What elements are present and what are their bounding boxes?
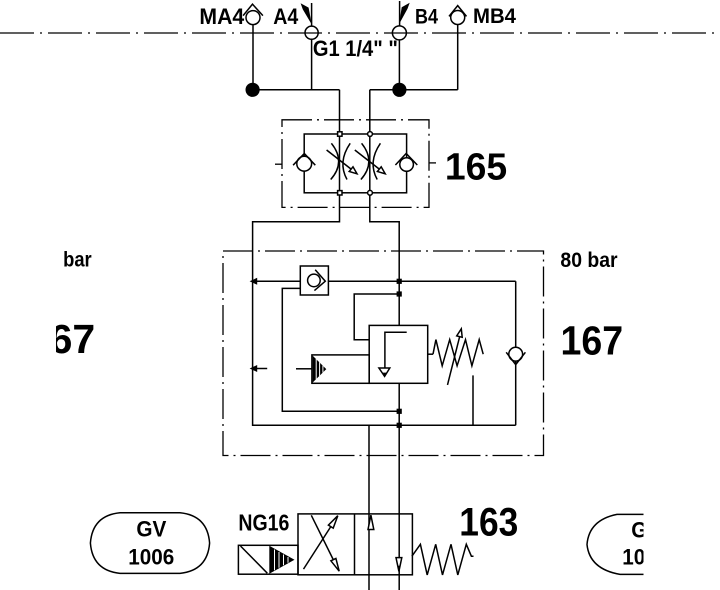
crossover arrow 1 bbox=[304, 516, 338, 569]
svg-text:NG16: NG16 bbox=[238, 510, 289, 536]
centerline (dash-dot gauge manifold line) bbox=[0, 32, 720, 34]
junction arrow (pilot tap upper) bbox=[250, 278, 258, 285]
wire bus A bbox=[253, 89, 340, 91]
axis stub left bbox=[275, 163, 282, 165]
main valve body 167 bbox=[369, 325, 428, 383]
svg-text:B4: B4 bbox=[415, 5, 438, 28]
coupling B4 bbox=[392, 26, 406, 40]
throttle right (165) bbox=[355, 143, 385, 179]
bypass loop wire bbox=[282, 288, 399, 411]
internal flow path bbox=[379, 332, 407, 376]
svg-text:1006: 1006 bbox=[128, 545, 174, 570]
svg-text:163: 163 bbox=[459, 501, 518, 545]
junction (pilot) bbox=[397, 291, 402, 296]
check valve C1 (167) bbox=[308, 270, 326, 291]
check valve box (167) bbox=[300, 266, 328, 295]
svg-text:G1 1/4" ": G1 1/4" " bbox=[313, 36, 398, 61]
wire B branch down / jog right bbox=[370, 90, 399, 326]
valve 165 body bbox=[304, 134, 406, 193]
solenoid diagonal bbox=[241, 546, 268, 573]
valve return spring 163 bbox=[412, 544, 474, 575]
pilot piston box bbox=[312, 355, 369, 383]
test point MA4 bbox=[243, 4, 263, 24]
port circle top bbox=[368, 132, 373, 137]
GV 1006 stamp right (clipped) bbox=[587, 514, 650, 574]
junction (loop) bbox=[397, 409, 402, 414]
svg-text:167: 167 bbox=[561, 318, 624, 364]
pilot sense dashed arrow bbox=[250, 365, 312, 372]
wire bus B bbox=[370, 89, 458, 91]
check valve C2 (167) bbox=[506, 347, 525, 364]
pilot wire bbox=[354, 294, 399, 340]
wire A4 down bbox=[311, 39, 313, 90]
straight arrow down bbox=[396, 558, 402, 572]
pilot piston hatched triangle bbox=[313, 356, 327, 383]
svg-text:MB4: MB4 bbox=[473, 5, 516, 28]
spring stub bbox=[428, 353, 433, 355]
spring adjust arrow bbox=[448, 329, 463, 385]
wire A branch down / jog left / down to drain rail bbox=[253, 90, 516, 426]
hose arrow B4 bbox=[399, 3, 410, 24]
svg-text:MA4: MA4 bbox=[199, 4, 245, 29]
svg-text:GV: GV bbox=[136, 517, 166, 542]
svg-text:80 bar: 80 bar bbox=[560, 249, 617, 272]
solenoid hatched triangle bbox=[269, 546, 294, 574]
check valve right (165) bbox=[395, 154, 417, 172]
wire main down to 163 (left) bbox=[368, 425, 370, 590]
wire B4 down bbox=[398, 40, 400, 90]
wire MB4 down bbox=[457, 25, 459, 90]
wire A4 stub bbox=[311, 3, 313, 26]
test point MB4 bbox=[449, 6, 467, 25]
crossover arrow 2 bbox=[311, 515, 339, 571]
port square bottom bbox=[338, 191, 342, 195]
directional valve 163 body bbox=[298, 514, 412, 575]
junction (branch) bbox=[397, 279, 402, 284]
wire check to branch bbox=[328, 280, 515, 282]
wire MA4 down bbox=[252, 25, 254, 90]
svg-text:67: 67 bbox=[50, 316, 96, 362]
port circle bottom bbox=[368, 190, 373, 195]
port square top bbox=[338, 132, 342, 136]
coupling A4 bbox=[305, 26, 318, 39]
check branch wire bbox=[515, 281, 517, 425]
wire B4 stub bbox=[399, 1, 401, 26]
junction (drain rail) bbox=[397, 423, 402, 428]
hose arrow A4 bbox=[301, 3, 312, 24]
check valve left (165) bbox=[293, 154, 315, 172]
throttle left (165) bbox=[327, 143, 357, 179]
counterbalance valve 167 enclosure (dash-dot) bbox=[223, 251, 544, 456]
axis stub right bbox=[430, 162, 437, 164]
wire main down to 163 (right) bbox=[398, 383, 400, 590]
spring 167 bbox=[433, 340, 483, 366]
spring chamber drain wire bbox=[472, 375, 474, 425]
position divider bbox=[354, 514, 356, 575]
valve 165 enclosure (dash-dot) bbox=[282, 120, 429, 208]
straight arrow up bbox=[368, 515, 374, 529]
GV 1006 stamp left bbox=[90, 513, 209, 574]
svg-text:bar: bar bbox=[63, 248, 92, 271]
node B bbox=[392, 83, 406, 97]
node A bbox=[246, 83, 260, 97]
solenoid 163 bbox=[238, 545, 298, 574]
svg-text:A4: A4 bbox=[273, 4, 299, 29]
wire to check box bbox=[253, 280, 300, 282]
svg-text:165: 165 bbox=[445, 147, 507, 189]
